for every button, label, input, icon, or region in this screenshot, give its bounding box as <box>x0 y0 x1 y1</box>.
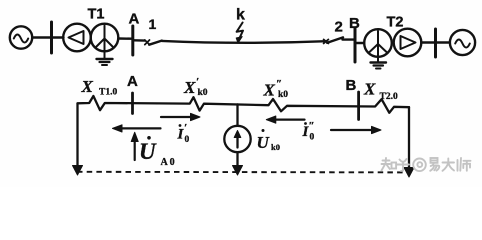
svg-text:0: 0 <box>310 133 315 143</box>
svg-text:0: 0 <box>185 135 190 145</box>
svg-text:X: X <box>363 80 376 99</box>
svg-text:′: ′ <box>196 76 199 88</box>
svg-text:B: B <box>349 15 360 32</box>
svg-text:T1.0: T1.0 <box>99 88 117 98</box>
svg-text:″: ″ <box>309 120 315 132</box>
svg-text:k: k <box>236 7 245 24</box>
svg-text:X: X <box>183 78 196 97</box>
svg-text:2: 2 <box>335 19 343 36</box>
svg-text:A 0: A 0 <box>161 157 175 168</box>
svg-text:T1: T1 <box>88 7 105 23</box>
svg-text:U: U <box>257 133 270 152</box>
svg-text:X: X <box>263 81 276 100</box>
svg-text:T2: T2 <box>387 15 404 31</box>
svg-text:k0: k0 <box>198 88 208 98</box>
svg-text:A: A <box>127 73 138 90</box>
svg-text:′: ′ <box>184 122 187 134</box>
svg-text:k0: k0 <box>278 90 288 100</box>
svg-text:1: 1 <box>149 16 157 32</box>
svg-text:k0: k0 <box>271 142 280 152</box>
svg-text:U: U <box>139 139 157 164</box>
svg-text:″: ″ <box>276 78 282 90</box>
svg-text:A: A <box>129 11 140 28</box>
svg-text:T2.0: T2.0 <box>380 92 398 102</box>
svg-text:B: B <box>346 77 357 94</box>
svg-text:X: X <box>81 77 94 96</box>
